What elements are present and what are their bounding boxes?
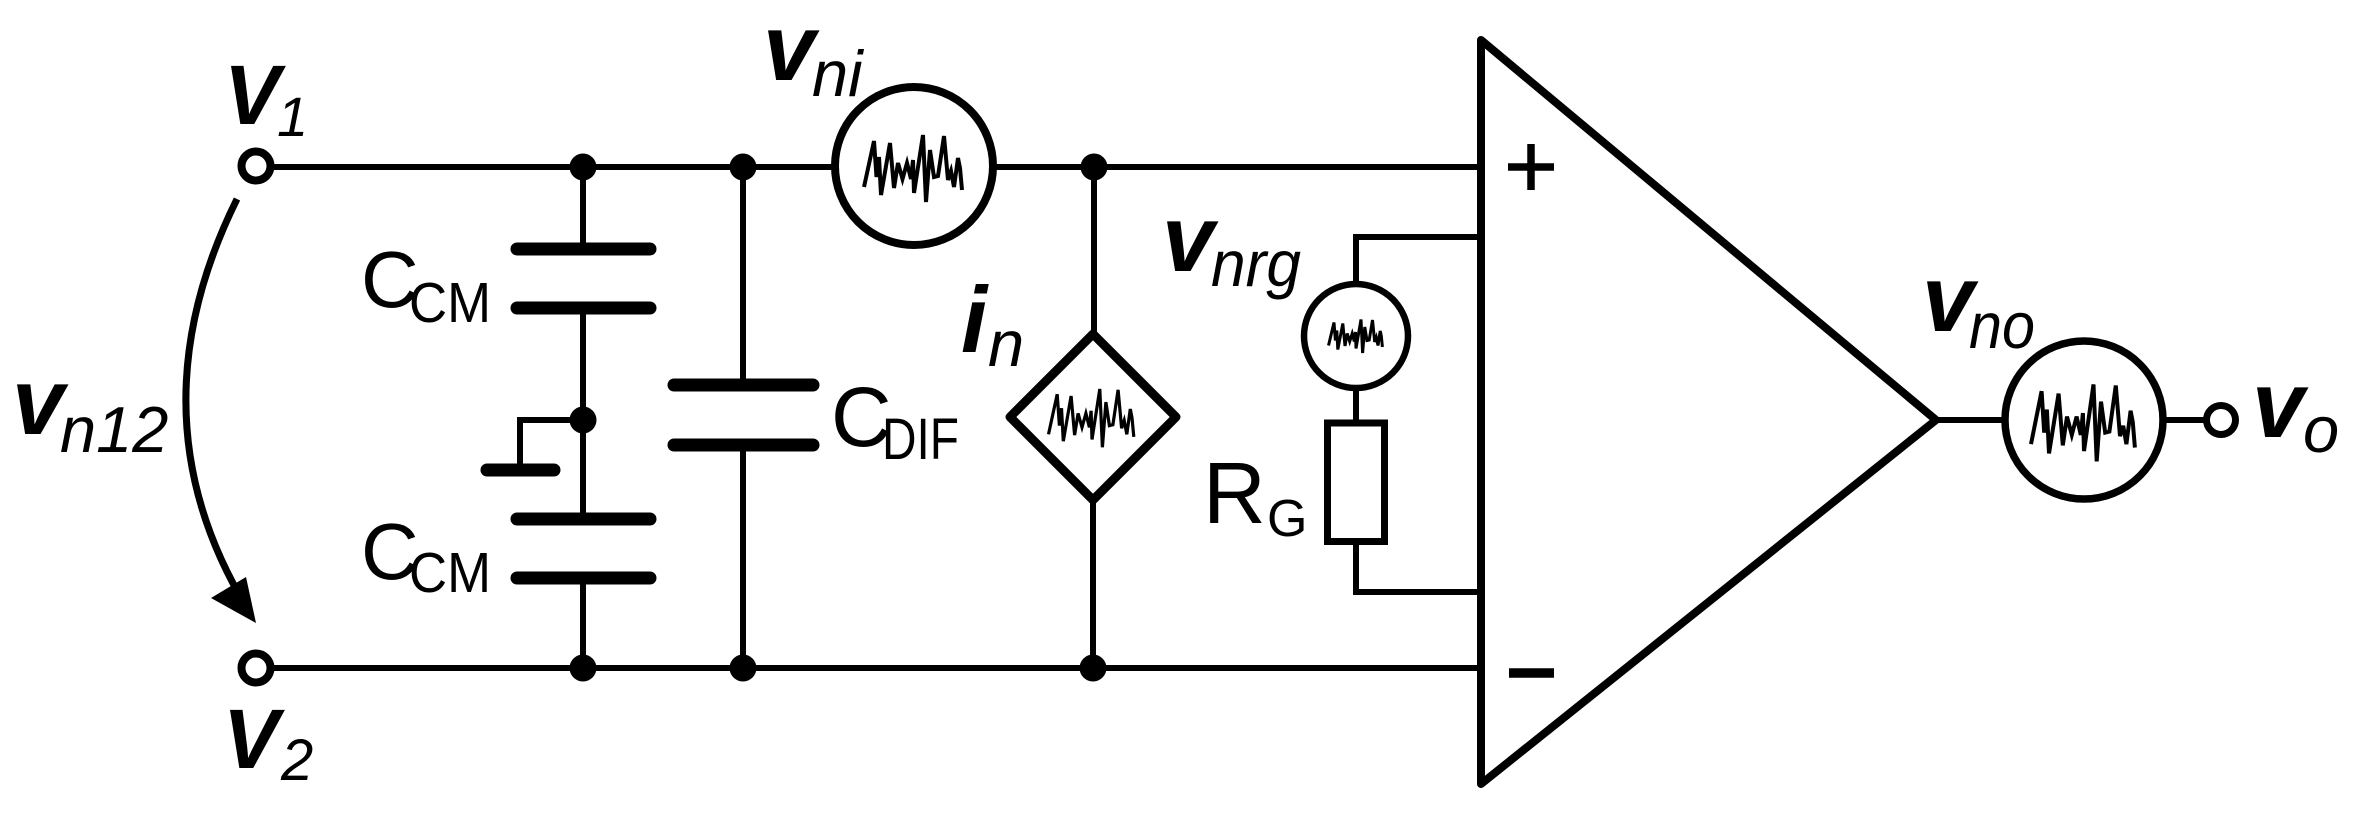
svg-text:DIF: DIF xyxy=(882,407,959,472)
terminal v_o xyxy=(2207,406,2236,435)
op-amp - pin xyxy=(1509,668,1554,678)
wire C_CM top branch xyxy=(580,167,586,243)
svg-text:CM: CM xyxy=(409,541,491,605)
wire bottom rail (V2 to op-amp - input) xyxy=(274,665,1481,671)
op-amp + pin xyxy=(1508,144,1554,190)
svg-text:o: o xyxy=(2303,393,2339,466)
wire v_nrg branch top (to op-amp) xyxy=(1356,237,1481,284)
resistor R_G xyxy=(1328,423,1385,542)
wire C_CM bottom to rail xyxy=(580,584,586,668)
svg-text:v: v xyxy=(2252,352,2309,457)
node C_DIF bottom junction xyxy=(730,655,757,682)
ground wire from node xyxy=(520,420,583,465)
svg-text:2: 2 xyxy=(280,728,313,793)
svg-text:V: V xyxy=(223,692,285,786)
svg-text:i: i xyxy=(961,267,989,372)
noise voltage source v_no xyxy=(2005,341,2163,499)
node i_n bottom junction xyxy=(1080,655,1107,682)
wire i_n diamond bottom to rail xyxy=(1090,499,1096,668)
wire C_DIF top xyxy=(740,167,746,379)
wire top rail left segment (V1 to v_ni) xyxy=(274,164,835,170)
noise voltage source v_ni xyxy=(835,87,993,245)
svg-text:n12: n12 xyxy=(60,393,168,466)
capacitor C_CM (bottom) plates xyxy=(517,519,650,578)
node V1/C_CM junction xyxy=(570,154,597,181)
wire v_nrg to R_G xyxy=(1353,386,1359,421)
node C_CM bottom junction xyxy=(570,655,597,682)
node C_DIF top junction xyxy=(730,154,757,181)
svg-text:CM: CM xyxy=(409,271,491,335)
terminal V2 xyxy=(242,654,271,683)
wire top rail right segment (v_ni to op-amp + input) xyxy=(993,164,1481,170)
terminal V1 xyxy=(242,152,271,181)
node ground junction xyxy=(570,407,597,434)
svg-text:ni: ni xyxy=(812,37,864,110)
svg-text:nrg: nrg xyxy=(1211,227,1301,300)
noise current source i_n (diamond) xyxy=(1010,334,1176,500)
wire op-amp output xyxy=(1936,417,2006,423)
arrow v_n12 (noise between inputs) xyxy=(186,199,256,623)
wire R_G bottom (to op-amp) xyxy=(1356,543,1481,592)
noise voltage source v_nrg xyxy=(1304,284,1408,388)
svg-text:n: n xyxy=(988,307,1024,380)
svg-text:1: 1 xyxy=(277,85,308,148)
node i_n top junction xyxy=(1081,154,1108,181)
capacitor C_CM (top) plates xyxy=(517,249,650,308)
wire v_no to output terminal xyxy=(2162,417,2205,423)
ground bar xyxy=(487,464,554,477)
wire between C_CM capacitors (through ground node) xyxy=(580,314,586,514)
capacitor C_DIF plates xyxy=(674,385,813,445)
svg-text:no: no xyxy=(1969,289,2035,362)
svg-text:R: R xyxy=(1203,445,1266,542)
svg-text:G: G xyxy=(1267,490,1307,548)
op-amp U1 triangle xyxy=(1481,40,1936,784)
wire node to i_n diamond top xyxy=(1091,167,1097,336)
wire C_DIF bottom xyxy=(740,451,746,668)
